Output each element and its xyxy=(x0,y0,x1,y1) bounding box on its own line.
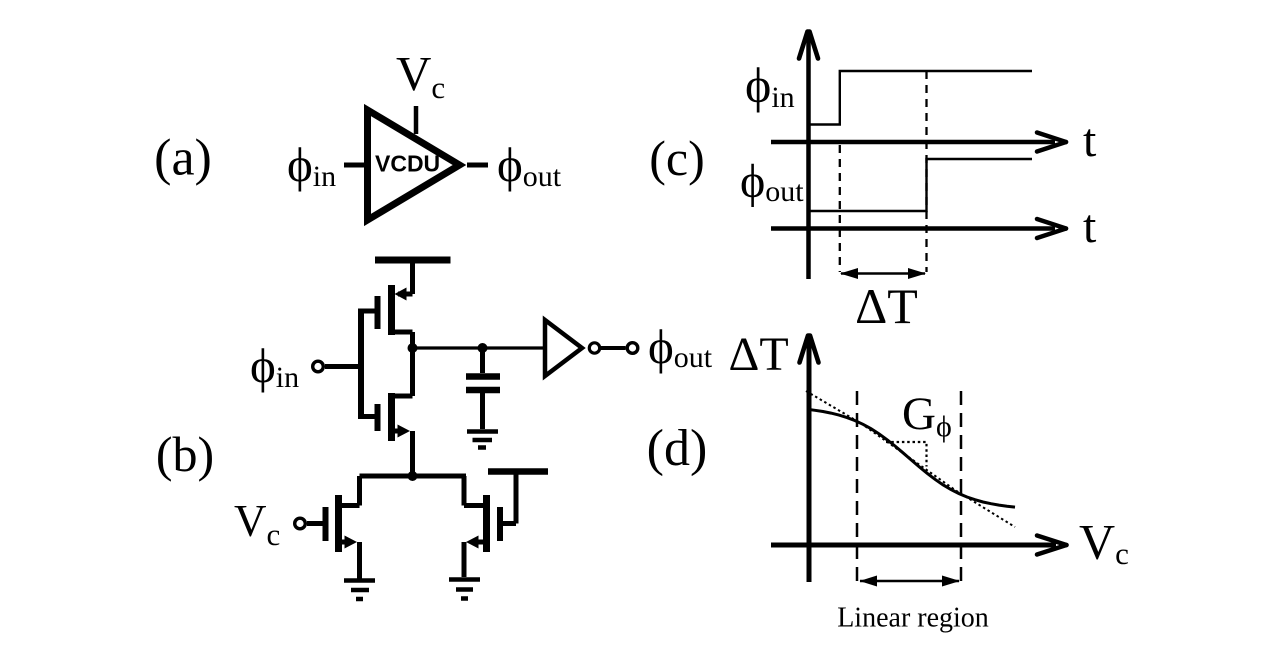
svg-text:(d): (d) xyxy=(647,420,708,477)
svg-text:t: t xyxy=(1083,200,1097,253)
svg-text:Linear region: Linear region xyxy=(837,603,989,634)
svg-text:(b): (b) xyxy=(156,426,214,482)
svg-text:ΔT: ΔT xyxy=(855,278,918,334)
svg-text:VCDU: VCDU xyxy=(375,151,440,177)
svg-text:t: t xyxy=(1083,114,1097,167)
svg-text:(c): (c) xyxy=(649,130,705,186)
svg-text:(a): (a) xyxy=(154,130,212,187)
svg-text:ΔT: ΔT xyxy=(729,328,789,381)
